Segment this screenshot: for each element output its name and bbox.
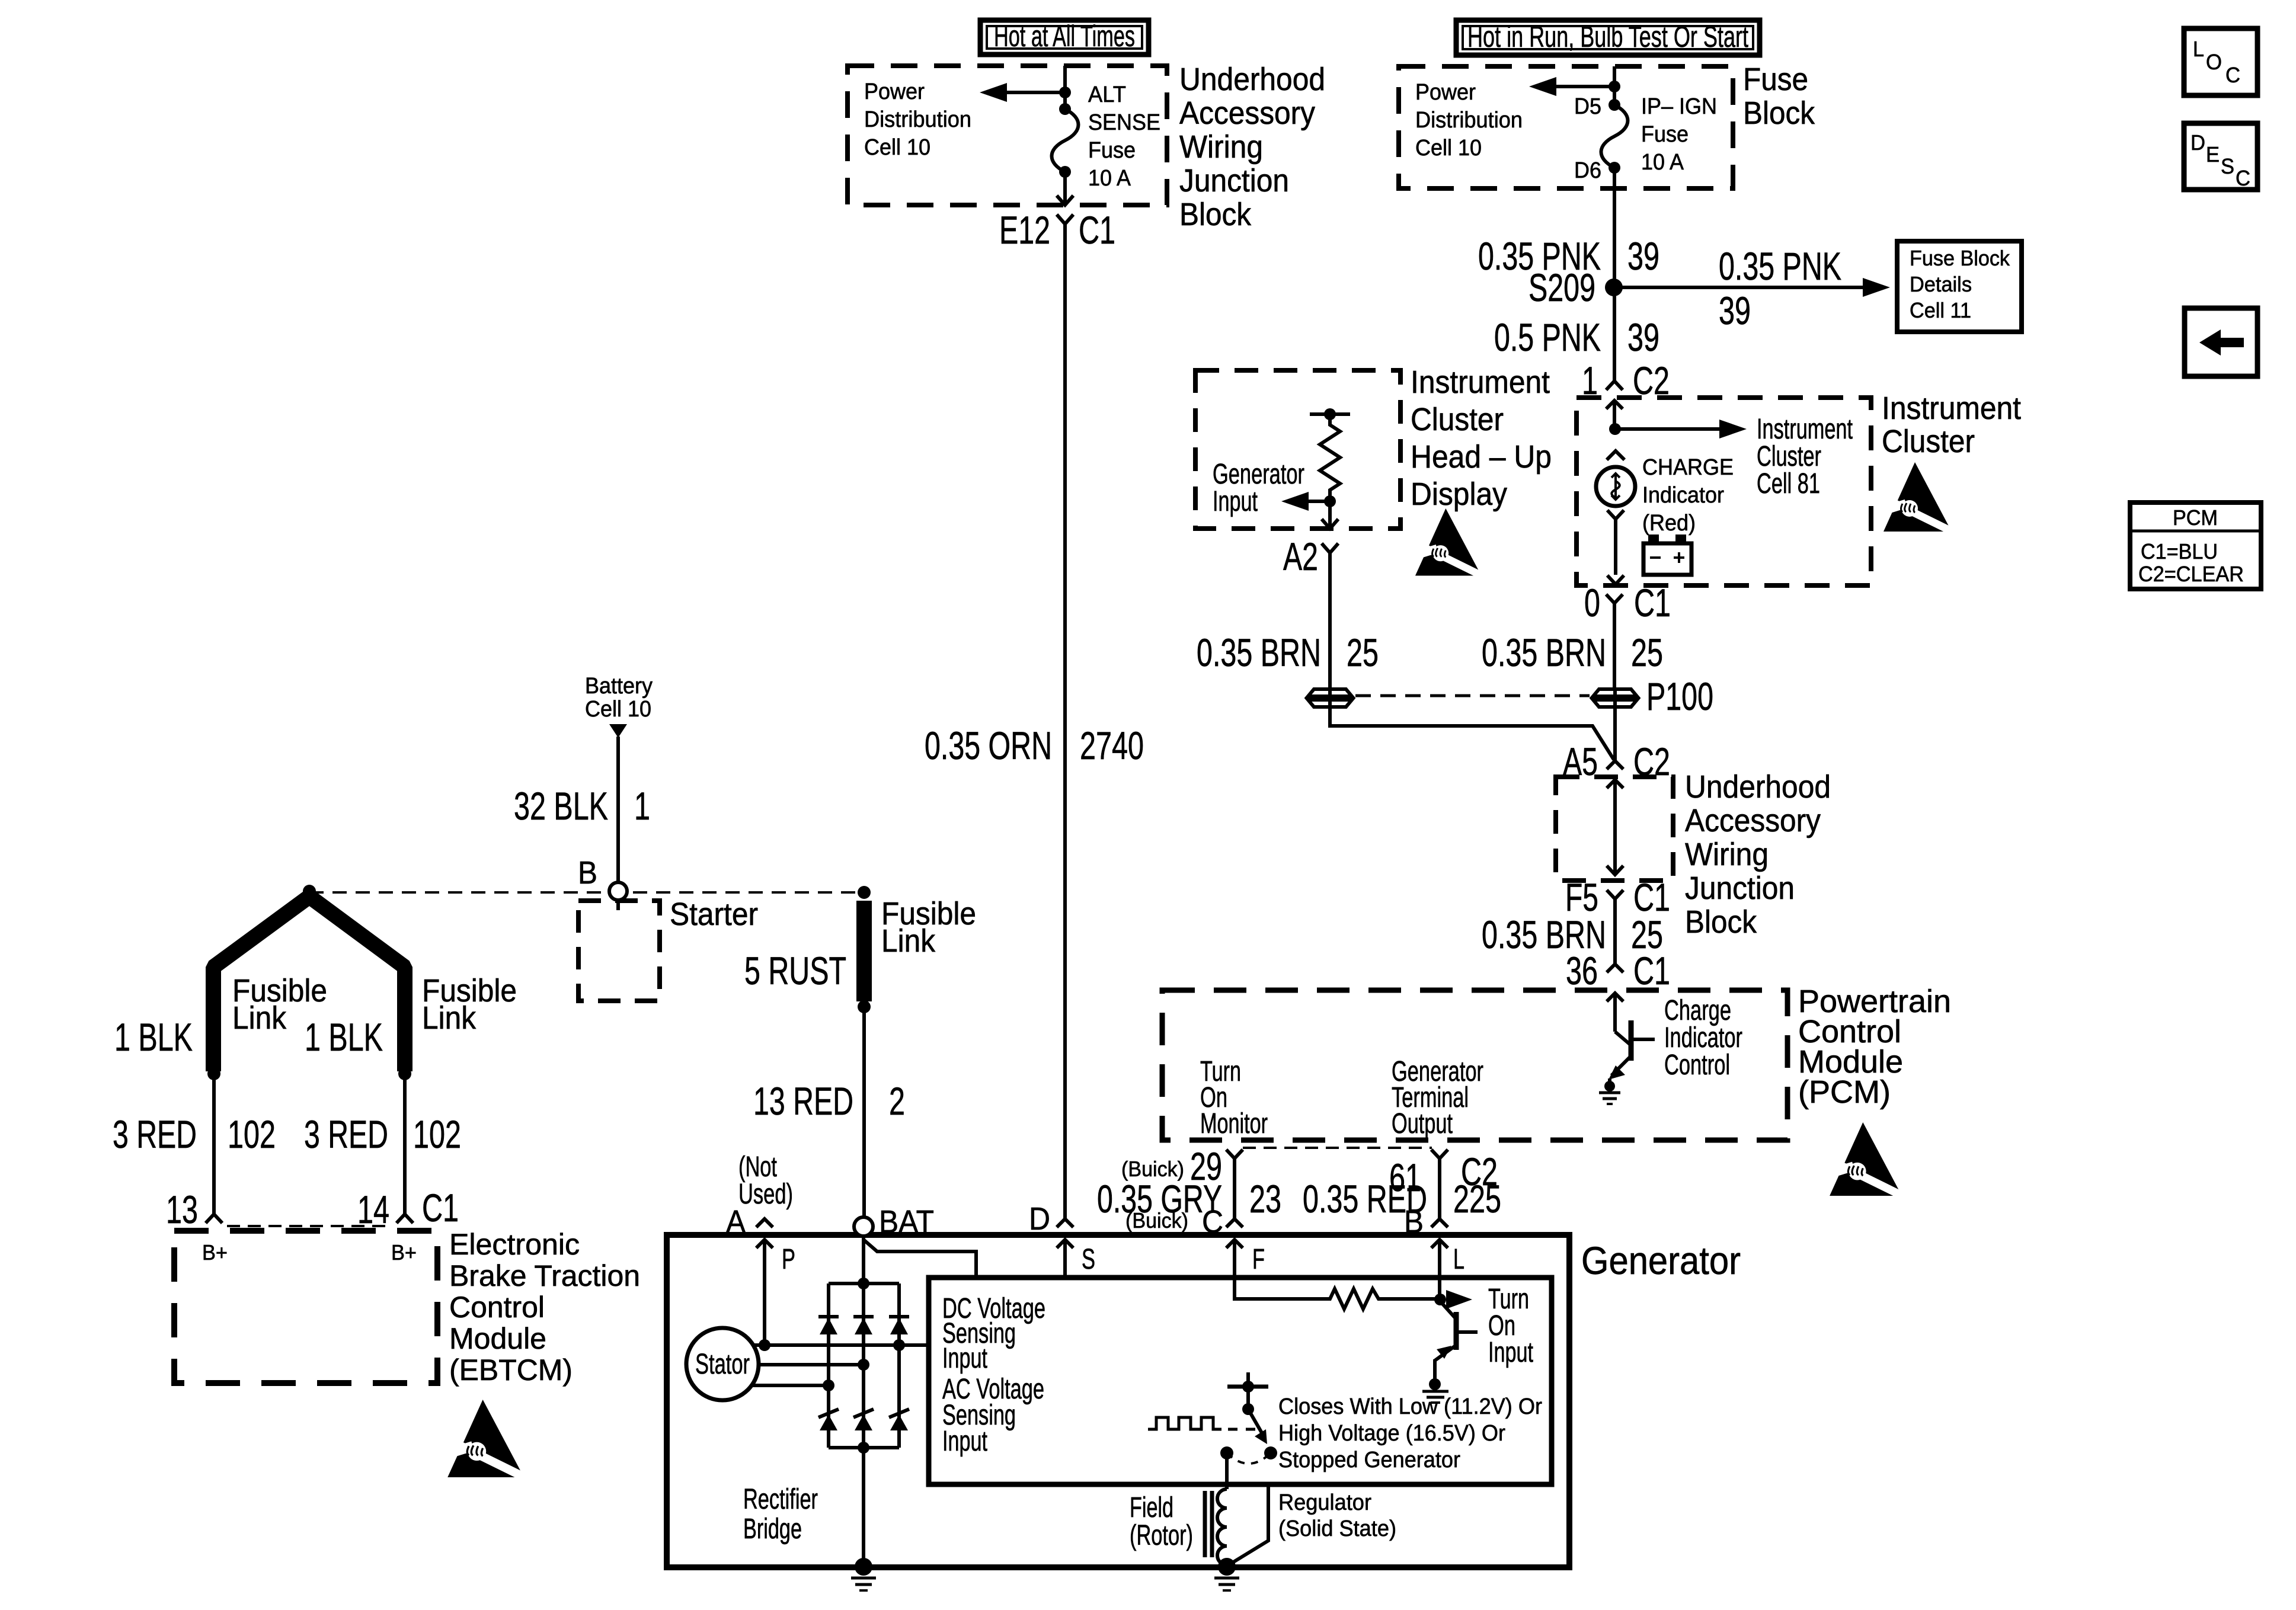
svg-text:Input: Input — [942, 1343, 987, 1374]
svg-text:Field: Field — [1130, 1492, 1173, 1523]
svg-text:P100: P100 — [1646, 674, 1713, 718]
rectifier bridge frame — [829, 1278, 899, 1454]
wire arrow to power distribution — [1529, 77, 1614, 96]
svg-text:C1: C1 — [422, 1186, 459, 1230]
svg-text:Block: Block — [1179, 197, 1252, 232]
ground: turn on input transistor — [1422, 1378, 1448, 1403]
svg-text:36: 36 — [1566, 949, 1598, 993]
label: Electronic Brake Traction Control Module (EBTCM) — [449, 1228, 640, 1387]
node: junction to power distribution arrow — [1059, 87, 1071, 98]
wire: 13 RED 2 from fusible link to BAT — [753, 1007, 905, 1218]
"Hot in Run, Bulb Test Or Start" title box — [1456, 20, 1760, 55]
wire through junction block — [1607, 780, 1623, 875]
svg-text:25: 25 — [1631, 630, 1663, 674]
svg-text:Closes With Low (11.2V) Or: Closes With Low (11.2V) Or — [1278, 1394, 1542, 1419]
svg-text:Junction: Junction — [1179, 163, 1289, 199]
splice node S209 — [1528, 265, 1623, 309]
label: Instrument Cluster (right) — [1882, 391, 2021, 459]
stator phase wire 1 (DC sensing) — [753, 1343, 930, 1347]
stator — [686, 1328, 759, 1400]
regulator ground leg — [1229, 1484, 1268, 1565]
svg-text:Cell 81: Cell 81 — [1757, 468, 1820, 500]
ESD symbol PCM — [1825, 1122, 1908, 1198]
wire: A2 branch joining main below P100 — [1330, 709, 1614, 760]
svg-text:Details: Details — [1910, 272, 1972, 296]
svg-text:(Solid State): (Solid State) — [1278, 1516, 1396, 1541]
label: Underhood Accessory Wiring Junction Block — [1179, 62, 1325, 232]
svg-text:E12: E12 — [999, 208, 1050, 252]
svg-text:Hot in Run, Bulb Test Or Start: Hot in Run, Bulb Test Or Start — [1467, 20, 1748, 53]
svg-text:0.35 PNK: 0.35 PNK — [1719, 244, 1841, 288]
svg-text:ALT: ALT — [1088, 82, 1126, 107]
svg-text:Hot at All Times: Hot at All Times — [994, 20, 1135, 53]
svg-text:Display: Display — [1411, 476, 1507, 512]
svg-text:2740: 2740 — [1080, 724, 1144, 767]
wire: 0.35 BRN 25 from F5 to PCM — [1482, 899, 1663, 964]
fusible link chevron pair (1 BLK) — [114, 885, 517, 1080]
svg-text:High Voltage (16.5V) Or: High Voltage (16.5V) Or — [1278, 1421, 1505, 1446]
connector C at generator — [1202, 1204, 1243, 1240]
svg-text:CHARGE: CHARGE — [1642, 455, 1734, 480]
svg-text:Brake Traction: Brake Traction — [449, 1259, 640, 1292]
node: junction to power distribution arrow — [1609, 81, 1620, 92]
resistor in regulator (field drive) — [1325, 1289, 1437, 1309]
svg-text:C2=CLEAR: C2=CLEAR — [2138, 562, 2244, 586]
wire: exit arrow from generator input box — [1322, 501, 1338, 529]
ground: generator main — [851, 1558, 876, 1590]
wire: 0.5 PNK 39 from S209 down to instrument cluster — [1494, 287, 1659, 381]
wire: feed into ALT SENSE fuse — [1063, 66, 1067, 109]
powertrain control module box — [1162, 990, 1787, 1140]
generator box — [667, 1235, 1569, 1567]
wire: 0.35 PNK 39 from fuse to S209 — [1478, 168, 1659, 287]
square wave signal symbol — [1148, 1417, 1221, 1429]
field (rotor) coil — [1205, 1489, 1227, 1565]
connector 0 C1 out of instrument cluster — [1584, 581, 1671, 625]
svg-text:C1: C1 — [1633, 949, 1670, 993]
label: Charge Indicator Control — [1664, 995, 1742, 1081]
svg-text:1 BLK: 1 BLK — [114, 1015, 193, 1059]
svg-text:Fuse: Fuse — [1743, 62, 1808, 97]
label: Turn On Input — [1488, 1283, 1533, 1368]
svg-text:3 RED: 3 RED — [304, 1112, 388, 1156]
svg-text:Rectifier: Rectifier — [743, 1484, 818, 1515]
svg-text:13: 13 — [166, 1188, 198, 1231]
resistor inside generator input — [1310, 408, 1350, 501]
connector A2 — [1283, 534, 1338, 578]
wire: switch to field coil — [1225, 1453, 1229, 1489]
svg-text:Input: Input — [1488, 1337, 1533, 1368]
svg-text:Link: Link — [881, 923, 936, 959]
svg-text:Head – Up: Head – Up — [1411, 439, 1552, 475]
svg-text:5 RUST: 5 RUST — [744, 949, 846, 993]
svg-text:(Buick): (Buick) — [1125, 1208, 1188, 1233]
svg-text:D5: D5 — [1574, 94, 1601, 119]
ESD symbol EBTCM — [442, 1400, 530, 1480]
EBTCM connector face (dashed) — [227, 1225, 392, 1227]
svg-text:S209: S209 — [1528, 265, 1595, 309]
label: Fuse Block — [1743, 62, 1815, 131]
svg-text:Power: Power — [1415, 80, 1476, 105]
connector 1 C2 into instrument cluster — [1582, 359, 1670, 402]
svg-text:D: D — [1029, 1201, 1050, 1237]
svg-text:25: 25 — [1347, 630, 1379, 674]
wire: main from P100 to A5 — [1613, 709, 1617, 761]
starter box — [578, 897, 758, 1001]
svg-text:C1=BLU: C1=BLU — [2141, 539, 2218, 564]
label: Instrument Cluster Cell 81 — [1757, 414, 1853, 500]
svg-text:C1: C1 — [1634, 581, 1671, 625]
node: phase 1 to bridge right rail — [893, 1339, 905, 1351]
svg-text:P: P — [782, 1244, 795, 1275]
connector pin 61 C2 (generator terminal output) — [1389, 1150, 1498, 1199]
"Hot at All Times" title box — [980, 20, 1149, 55]
svg-text:Monitor: Monitor — [1200, 1108, 1268, 1140]
wire arrow: turn on input — [1446, 1290, 1472, 1309]
svg-text:S: S — [1082, 1244, 1095, 1275]
svg-text:Indicator: Indicator — [1642, 483, 1724, 508]
grommet P100 right — [1593, 674, 1713, 718]
svg-text:102: 102 — [228, 1112, 276, 1156]
stator phase wire 3 — [752, 1379, 834, 1391]
dashed pass-through between P100 grommets — [1355, 694, 1590, 697]
node: junction at L wire — [1434, 1294, 1446, 1305]
connector D — [1029, 1201, 1073, 1237]
svg-text:B+: B+ — [391, 1240, 417, 1265]
svg-text:Link: Link — [232, 1000, 287, 1036]
switch contacts — [1220, 1446, 1277, 1464]
svg-text:S: S — [2221, 154, 2234, 178]
svg-text:13 RED: 13 RED — [753, 1079, 853, 1123]
wire: 3 RED 102 left to EBTCM 13 — [113, 1074, 276, 1214]
wire arrow to instrument cluster cell 81 — [1615, 420, 1747, 438]
wire: fuse output exiting junction block — [1057, 172, 1073, 205]
diode top right — [889, 1317, 909, 1334]
underhood junction block pass-through box — [1556, 777, 1673, 881]
generator input box (head-up display) — [1195, 370, 1400, 529]
svg-text:Fuse: Fuse — [1641, 122, 1689, 147]
transistor: charge indicator control driver — [1609, 1020, 1655, 1086]
svg-text:Input: Input — [1213, 486, 1258, 517]
back-arrow reference box — [2185, 308, 2257, 376]
svg-text:10 A: 10 A — [1088, 166, 1131, 191]
svg-text:BAT: BAT — [879, 1204, 934, 1240]
pin F arrow and wire to regulator resistor — [1226, 1240, 1325, 1299]
svg-text:Underhood: Underhood — [1179, 62, 1325, 97]
node: resistor output junction — [1324, 495, 1336, 507]
label: Closes With Low / High Voltage / Stopped Generator — [1278, 1394, 1542, 1473]
svg-text:Cell 10: Cell 10 — [864, 135, 930, 160]
wire: 0.35 BRN 25 from A2 to P100 — [1197, 553, 1379, 689]
svg-text:L: L — [1453, 1244, 1464, 1275]
svg-text:0.5 PNK: 0.5 PNK — [1494, 315, 1601, 359]
svg-text:(PCM): (PCM) — [1798, 1074, 1891, 1110]
wire arrow to power distribution — [980, 83, 1065, 102]
svg-text:SENSE: SENSE — [1088, 110, 1160, 135]
pin P arrow inside generator — [756, 1240, 795, 1345]
label: Rectifier Bridge — [743, 1484, 818, 1545]
LOC reference box — [2184, 28, 2257, 95]
PCM connector legend box — [2130, 502, 2261, 589]
svg-text:Starter: Starter — [670, 897, 758, 932]
svg-text:Fuse Block: Fuse Block — [1910, 246, 2010, 270]
instrument cluster box — [1576, 398, 1871, 585]
svg-text:A2: A2 — [1283, 534, 1318, 578]
svg-text:Regulator: Regulator — [1278, 1490, 1371, 1515]
Fuse Block Details Cell 11 box — [1897, 241, 2022, 332]
svg-text:39: 39 — [1627, 234, 1659, 278]
node: junction to cluster cell 81 arrow — [1609, 423, 1621, 435]
svg-text:Battery: Battery — [585, 674, 653, 699]
svg-text:D6: D6 — [1574, 158, 1601, 183]
node B (junction ring) — [578, 855, 627, 910]
wire: entry into PCM — [1607, 993, 1623, 1032]
svg-text:3 RED: 3 RED — [113, 1112, 197, 1156]
svg-text:1 BLK: 1 BLK — [305, 1015, 383, 1059]
svg-text:23: 23 — [1249, 1177, 1281, 1221]
ground: PCM transistor emitter — [1599, 1081, 1620, 1104]
battery symbol inside cluster — [1643, 534, 1691, 575]
svg-text:1: 1 — [634, 784, 650, 828]
switch blade with arrow — [1248, 1409, 1267, 1444]
svg-text:Generator: Generator — [1581, 1238, 1741, 1282]
label: AC Voltage Sensing Input — [942, 1374, 1044, 1457]
connector A (not used) — [726, 1151, 793, 1240]
fuse block box (power distribution, top right) — [1399, 66, 1733, 188]
connector 13 at EBTCM — [166, 1188, 222, 1231]
grommet P100 left — [1308, 687, 1352, 709]
svg-text:IP– IGN: IP– IGN — [1641, 94, 1717, 119]
svg-text:Junction: Junction — [1685, 870, 1795, 906]
underhood accessory wiring junction block box (power distribution, top middle) — [848, 66, 1167, 205]
svg-text:Distribution: Distribution — [1415, 108, 1523, 133]
connector B at generator — [1404, 1204, 1448, 1240]
svg-text:(Rotor): (Rotor) — [1130, 1520, 1193, 1551]
svg-text:Control: Control — [449, 1291, 545, 1324]
connector 14 C1 at EBTCM — [357, 1186, 459, 1231]
svg-text:Output: Output — [1392, 1108, 1453, 1140]
svg-text:C: C — [2236, 166, 2250, 190]
svg-text:(EBTCM): (EBTCM) — [449, 1353, 573, 1387]
DESC reference box — [2184, 123, 2257, 190]
svg-text:PCM: PCM — [2173, 505, 2218, 530]
svg-text:E: E — [2206, 142, 2220, 167]
svg-text:L: L — [2193, 37, 2204, 61]
svg-text:0.35 BRN: 0.35 BRN — [1197, 630, 1321, 674]
svg-text:102: 102 — [413, 1112, 461, 1156]
PCM C2 connector face (dashed) — [1243, 1147, 1432, 1149]
svg-text:2: 2 — [889, 1079, 905, 1123]
battery feed reference — [585, 674, 653, 738]
label: Regulator (Solid State) — [1278, 1490, 1396, 1541]
svg-text:Control: Control — [1664, 1049, 1730, 1081]
svg-text:Stopped Generator: Stopped Generator — [1278, 1448, 1460, 1473]
svg-text:B: B — [578, 855, 597, 891]
connector 36 C1 into PCM — [1566, 949, 1670, 993]
svg-text:C1: C1 — [1079, 208, 1115, 252]
label: Instrument Cluster Head-Up Display — [1411, 364, 1552, 512]
svg-text:Distribution: Distribution — [864, 107, 971, 132]
svg-text:Block: Block — [1743, 95, 1815, 131]
dashed link square wave to switch — [1228, 1428, 1260, 1431]
diode top middle — [853, 1317, 874, 1334]
svg-text:39: 39 — [1719, 289, 1751, 332]
connector pin 29 (turn on monitor) — [1121, 1144, 1243, 1188]
svg-text:Accessory: Accessory — [1179, 95, 1315, 131]
connector F5 C1 — [1565, 875, 1670, 919]
connector A5 C2 — [1563, 740, 1670, 783]
label: DC Voltage Sensing Input — [942, 1293, 1045, 1374]
svg-text:Wiring: Wiring — [1179, 129, 1263, 165]
wire: 0.35 RED 225 from PCM 61 to generator B — [1303, 1158, 1501, 1221]
svg-text:A: A — [726, 1204, 746, 1240]
svg-text:Instrument: Instrument — [1882, 391, 2021, 426]
zener diode bottom right — [889, 1409, 909, 1430]
svg-text:Instrument: Instrument — [1411, 364, 1550, 400]
svg-text:Bridge: Bridge — [743, 1513, 802, 1545]
svg-text:0: 0 — [1584, 581, 1600, 625]
label: Powertrain Control Module (PCM) — [1798, 984, 1951, 1110]
svg-text:(Red): (Red) — [1642, 511, 1696, 536]
svg-text:Cell 11: Cell 11 — [1910, 298, 1971, 322]
svg-text:Link: Link — [422, 1000, 477, 1036]
svg-text:Power: Power — [864, 79, 925, 104]
wire: 0.35 BRN 25 from cluster to P100 — [1482, 603, 1663, 689]
svg-text:Wiring: Wiring — [1685, 837, 1769, 872]
label: Generator Terminal Output — [1392, 1056, 1483, 1140]
svg-text:F: F — [1252, 1244, 1265, 1275]
voltage regulator inner box — [929, 1278, 1552, 1484]
pin S arrow into regulator — [1057, 1240, 1095, 1278]
CHARGE indicator (red) lamp — [1596, 451, 1734, 584]
ground: field and regulator — [1214, 1558, 1239, 1590]
wire: 3 RED 102 right to EBTCM 14 — [304, 1074, 461, 1214]
zener diode bottom left — [818, 1409, 839, 1430]
svg-text:D: D — [2191, 130, 2205, 155]
label: Underhood Accessory Wiring Junction Block (lower) — [1685, 769, 1831, 940]
svg-text:B+: B+ — [202, 1240, 228, 1265]
fuse ALT SENSE 10A — [1052, 82, 1161, 191]
svg-text:Input: Input — [942, 1426, 987, 1457]
svg-text:Block: Block — [1685, 904, 1757, 940]
ESD symbol head-up display — [1411, 508, 1486, 578]
wire: 0.35 ORN 2740 from E12 down to generator D — [925, 224, 1144, 1219]
wire: BAT branch to voltage regulator sensing — [864, 1240, 976, 1278]
label: Turn On Monitor — [1200, 1056, 1268, 1140]
svg-text:39: 39 — [1627, 315, 1659, 359]
svg-text:Accessory: Accessory — [1685, 803, 1821, 838]
connector E12 C1 — [999, 208, 1115, 252]
svg-text:O: O — [2206, 50, 2222, 74]
svg-text:Cell 10: Cell 10 — [585, 697, 651, 722]
svg-text:Stator: Stator — [695, 1349, 750, 1380]
stator phase wire 2 — [759, 1359, 869, 1371]
voltage switch contact bar — [1227, 1372, 1268, 1415]
wire: entry arrow into instrument cluster — [1606, 401, 1623, 429]
svg-text:Electronic: Electronic — [449, 1228, 580, 1261]
pin L arrow into regulator — [1431, 1240, 1464, 1299]
label: Field (Rotor) — [1130, 1492, 1193, 1551]
svg-text:0.35 ORN: 0.35 ORN — [925, 724, 1052, 767]
BAT terminal — [854, 1204, 934, 1567]
wire arrow: 0.35 PNK 39 to fuse block details — [1614, 244, 1890, 332]
svg-text:Cluster: Cluster — [1411, 402, 1504, 437]
svg-text:14: 14 — [357, 1188, 389, 1231]
svg-text:225: 225 — [1453, 1177, 1501, 1221]
EBTCM module box — [174, 1231, 437, 1383]
svg-text:10 A: 10 A — [1641, 150, 1684, 175]
node: P tap on phase 1 — [759, 1339, 770, 1351]
svg-text:C: C — [2225, 63, 2240, 87]
diode top left — [818, 1317, 839, 1334]
wire arrow to generator input — [1281, 492, 1330, 511]
wire: 0.35 GRY 23 from PCM 29 to generator C — [1097, 1158, 1281, 1233]
svg-text:Module: Module — [449, 1322, 546, 1355]
svg-text:32 BLK: 32 BLK — [514, 784, 608, 828]
svg-text:0.35 BRN: 0.35 BRN — [1482, 630, 1606, 674]
transistor: turn on input — [1435, 1301, 1478, 1381]
fusible link 5 RUST — [744, 886, 976, 1013]
svg-text:Used): Used) — [738, 1179, 793, 1210]
svg-text:Underhood: Underhood — [1685, 769, 1831, 805]
zener diode bottom middle — [853, 1409, 874, 1430]
svg-text:Cell 10: Cell 10 — [1415, 136, 1482, 161]
wire: feed into IP-IGN fuse — [1613, 66, 1616, 105]
svg-text:Cluster: Cluster — [1882, 424, 1975, 459]
svg-text:Fuse: Fuse — [1088, 138, 1136, 163]
wire: 32 BLK 1 from battery to B junction — [514, 737, 650, 882]
fuse IP-IGN 10A with terminals D5 D6 — [1574, 94, 1717, 183]
dashed bus at node B — [309, 891, 864, 894]
ESD symbol instrument cluster — [1879, 462, 1957, 534]
